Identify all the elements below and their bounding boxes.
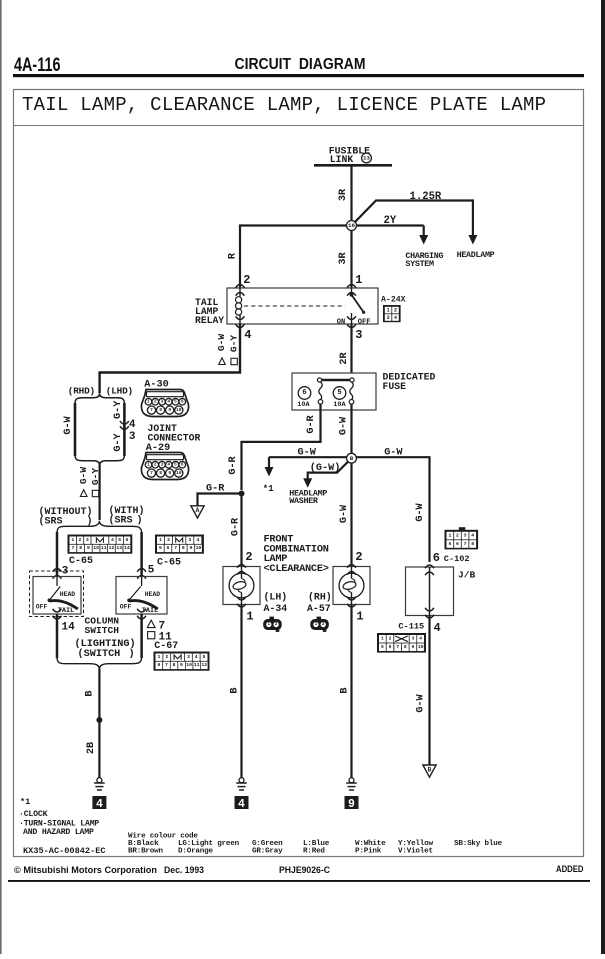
svg-text:7: 7 — [174, 545, 177, 551]
svg-text:5: 5 — [159, 545, 162, 551]
svg-text:G-W: G-W — [298, 447, 317, 458]
svg-text:5: 5 — [448, 541, 451, 547]
fuse 5 circled number — [333, 387, 346, 400]
svg-text:14: 14 — [124, 545, 130, 551]
svg-text:4: 4 — [419, 636, 422, 642]
connector A-34 icon — [263, 619, 282, 630]
svg-text:G-Y: G-Y — [229, 335, 240, 353]
joint connector A-29 icon — [141, 453, 188, 480]
svg-text:C-65: C-65 — [157, 558, 181, 569]
wire G-R from fuse 6 — [242, 404, 321, 490]
fuse 6 circled number — [298, 387, 311, 400]
svg-text:B: B — [428, 766, 432, 773]
svg-text:7: 7 — [150, 407, 153, 413]
svg-text:2: 2 — [275, 622, 278, 627]
svg-text:1: 1 — [315, 622, 318, 627]
relay coil — [239, 288, 241, 297]
svg-text:10: 10 — [176, 407, 182, 413]
svg-text:G-R: G-R — [206, 484, 225, 495]
svg-text:KX35-AC-00842-EC: KX35-AC-00842-EC — [23, 846, 106, 856]
svg-text:2: 2 — [394, 307, 397, 313]
svg-text:FUSE: FUSE — [383, 381, 407, 392]
svg-text:3: 3 — [129, 431, 136, 443]
svg-text:9: 9 — [168, 407, 171, 413]
left lighting switch box — [33, 577, 81, 615]
svg-text:5: 5 — [174, 399, 177, 404]
open triangle A destination — [191, 506, 204, 518]
left wire into C-65 (without SRS) — [56, 532, 59, 577]
wire from merge down to SRS split — [98, 465, 100, 521]
LH lamp bulb — [229, 573, 254, 598]
merge brace below RHD/LHD wires — [75, 455, 124, 466]
relay pin 1 connector chevrons — [347, 285, 356, 288]
svg-text:SYSTEM: SYSTEM — [405, 259, 434, 269]
svg-text:*1: *1 — [20, 797, 30, 807]
svg-text:2Y: 2Y — [384, 215, 397, 227]
connector A-57 icon — [310, 619, 329, 630]
svg-text:G-Y: G-Y — [113, 400, 124, 419]
wire jog to triangle A — [198, 494, 242, 507]
svg-text:3: 3 — [161, 462, 164, 467]
svg-text:6: 6 — [167, 545, 170, 551]
svg-text:RELAY: RELAY — [195, 315, 224, 326]
svg-text:6: 6 — [433, 551, 440, 565]
connector C-67 icon — [154, 652, 210, 671]
svg-text:3: 3 — [188, 537, 191, 543]
svg-text:OFF: OFF — [358, 318, 371, 326]
right switch blade — [141, 577, 143, 587]
splice dot B/2B — [96, 717, 102, 723]
svg-text:ON: ON — [337, 318, 345, 326]
svg-text:OFF: OFF — [120, 604, 132, 611]
svg-text:3R: 3R — [338, 252, 349, 265]
svg-text:1: 1 — [381, 636, 384, 642]
fusible link bus bar — [314, 164, 392, 167]
chevrons into right switch — [137, 569, 146, 572]
connector A-24X pin grid — [383, 305, 401, 322]
RH lamp box — [333, 567, 370, 605]
svg-text:2: 2 — [389, 636, 392, 642]
svg-text:6: 6 — [157, 662, 160, 668]
svg-text:(SRS: (SRS — [39, 515, 63, 527]
svg-text:2: 2 — [245, 550, 252, 564]
svg-text:): ) — [129, 648, 135, 660]
svg-text:TAIL LAMP, CLEARANCE LAMP, LIC: TAIL LAMP, CLEARANCE LAMP, LICENCE PLATE… — [22, 94, 546, 116]
joint connector inline chevrons pins 4/3 — [120, 421, 129, 424]
RH lamp output wire B — [350, 605, 352, 778]
svg-text:WASHER: WASHER — [289, 496, 319, 506]
svg-text:AND HAZARD LAMP: AND HAZARD LAMP — [23, 828, 94, 837]
svg-text:9: 9 — [87, 545, 90, 551]
svg-text:R:Red: R:Red — [303, 847, 325, 855]
junction dot on G-R — [239, 491, 245, 497]
svg-text:4: 4 — [167, 399, 170, 404]
wire 2Y from node 16 to charging system — [356, 224, 423, 226]
svg-text:G-Y: G-Y — [90, 468, 101, 486]
J/B box — [406, 567, 454, 616]
svg-text:): ) — [87, 515, 93, 527]
node 16 junction circle — [347, 221, 357, 231]
svg-text:Dec. 1993: Dec. 1993 — [164, 865, 204, 876]
svg-text:1: 1 — [159, 537, 162, 543]
svg-text:2B: 2B — [86, 742, 97, 754]
svg-text:9: 9 — [348, 798, 355, 811]
svg-text:(SRS: (SRS — [109, 514, 133, 526]
wire G-W from junction B down to RH lamp — [350, 463, 352, 566]
left switch output wire — [56, 614, 59, 658]
split brace into RHD/LHD wires — [75, 393, 124, 404]
svg-text:(LHD): (LHD) — [106, 386, 133, 397]
svg-text:C-65: C-65 — [69, 556, 93, 567]
svg-text:HEADLAMP: HEADLAMP — [457, 250, 495, 260]
svg-text:1: 1 — [246, 610, 253, 624]
wire G-R continues to LH lamp — [240, 494, 242, 567]
svg-text:3: 3 — [161, 399, 164, 404]
svg-text:6: 6 — [126, 537, 129, 543]
svg-text:8: 8 — [173, 662, 176, 668]
svg-text:7: 7 — [464, 541, 467, 547]
relay pin 4 chevrons — [236, 316, 245, 319]
svg-text:1: 1 — [147, 462, 150, 467]
relay dashed actuation line — [244, 305, 345, 307]
right wire into C-65 (with SRS) — [140, 532, 143, 577]
svg-text:8: 8 — [182, 545, 185, 551]
LH lamp output wire B — [240, 605, 242, 778]
svg-text:(RH): (RH) — [308, 592, 332, 603]
svg-text:1: 1 — [448, 532, 451, 538]
svg-text:3: 3 — [355, 328, 362, 342]
svg-text:10: 10 — [418, 644, 424, 650]
chevrons out of left switch — [53, 609, 62, 612]
wire 3R from node 16 down to relay pin 1 — [350, 231, 352, 288]
svg-text:C-102: C-102 — [444, 554, 470, 564]
svg-text:6: 6 — [302, 389, 306, 397]
connector C-115 icon — [377, 633, 426, 653]
svg-text:© Mitsubishi Motors Corporatio: © Mitsubishi Motors Corporation — [14, 865, 157, 876]
footer rule — [8, 880, 590, 882]
RH lamp exit chevrons — [347, 597, 356, 600]
svg-text:4: 4 — [111, 537, 114, 543]
svg-text:4: 4 — [238, 798, 245, 811]
wire B down from column switch — [98, 669, 100, 778]
ground symbol (column switch) — [97, 778, 102, 783]
svg-text:1: 1 — [71, 537, 74, 543]
svg-text:14: 14 — [62, 622, 76, 634]
svg-text:5: 5 — [174, 462, 177, 467]
svg-text:4: 4 — [394, 315, 397, 321]
svg-text:A: A — [196, 507, 200, 514]
svg-text:LINK: LINK — [330, 154, 354, 165]
svg-text:4: 4 — [129, 419, 136, 431]
svg-text:16: 16 — [348, 222, 355, 229]
svg-text:10: 10 — [186, 662, 192, 668]
svg-text:1: 1 — [267, 622, 270, 627]
arrow *1 (clock / turn-signal feed) — [268, 457, 270, 467]
svg-text:(G-W): (G-W) — [310, 462, 341, 474]
svg-text:*1: *1 — [263, 484, 274, 494]
chevrons out of right switch — [137, 609, 146, 612]
wire drop to relay pin 2 — [239, 224, 241, 287]
svg-text:5: 5 — [203, 654, 206, 660]
svg-text:12: 12 — [109, 545, 115, 551]
chevrons out of J/B — [425, 608, 434, 611]
svg-text:G-W: G-W — [63, 415, 74, 434]
svg-text:2: 2 — [355, 550, 362, 564]
wire 1.25R diagonal from node 16 — [355, 201, 473, 236]
ground symbol (LH lamp) — [239, 778, 244, 783]
svg-text:3R: 3R — [338, 188, 349, 201]
svg-text:11: 11 — [101, 545, 107, 551]
svg-text:2: 2 — [243, 273, 250, 287]
arrow to headlamp — [468, 235, 477, 245]
svg-text:11: 11 — [194, 662, 200, 668]
fuse bus bar — [320, 379, 353, 382]
right lighting switch box — [116, 577, 167, 615]
svg-text:B: B — [340, 687, 351, 693]
svg-text:3: 3 — [86, 537, 89, 543]
svg-text:HEAD: HEAD — [145, 591, 161, 598]
svg-text:5: 5 — [148, 565, 155, 577]
svg-text:10A: 10A — [297, 401, 310, 409]
svg-text:·CLOCK: ·CLOCK — [19, 810, 48, 819]
svg-text:G-W: G-W — [384, 447, 403, 458]
svg-text:A-57: A-57 — [307, 603, 331, 614]
svg-text:(RHD): (RHD) — [68, 386, 95, 397]
svg-text:): ) — [137, 514, 143, 526]
svg-text:3: 3 — [412, 636, 415, 642]
svg-text:5: 5 — [118, 537, 121, 543]
junction circle B — [347, 453, 357, 463]
svg-text:G-Y: G-Y — [113, 432, 124, 451]
svg-text:SWITCH: SWITCH — [85, 625, 120, 636]
svg-text:G-W: G-W — [216, 334, 227, 352]
svg-text:3: 3 — [187, 654, 190, 660]
right switch output wire — [140, 614, 143, 658]
fuse 5 element — [350, 382, 353, 400]
svg-text:9: 9 — [168, 470, 171, 476]
dashed outline around left lighting switch — [30, 571, 84, 617]
svg-text:4A-116: 4A-116 — [14, 55, 61, 76]
svg-text:(SWITCH: (SWITCH — [78, 648, 121, 660]
LHD wire G-Y upper — [123, 403, 126, 456]
wire 2R from relay pin 3 to dedicated fuse — [350, 324, 352, 373]
svg-text:10A: 10A — [333, 401, 346, 409]
wire G-W left to clock feed — [269, 456, 347, 458]
svg-text:1: 1 — [158, 654, 161, 660]
header rule — [13, 74, 584, 77]
relay pin 2 connector chevrons — [236, 285, 245, 288]
chevrons into J/B — [425, 565, 434, 568]
chevrons into left switch — [53, 569, 62, 572]
svg-text:ADDED: ADDED — [556, 864, 584, 875]
svg-text:G-W: G-W — [78, 467, 89, 485]
svg-text:4: 4 — [244, 328, 251, 342]
svg-text:4: 4 — [434, 621, 441, 635]
svg-text:1: 1 — [355, 273, 362, 287]
main diagram border box — [14, 90, 584, 857]
svg-text:9: 9 — [412, 644, 415, 650]
svg-text:2: 2 — [165, 654, 168, 660]
svg-text:B: B — [85, 690, 96, 696]
relay pin 3 chevrons — [347, 316, 356, 319]
ground number 4 — [92, 796, 106, 809]
svg-text:8: 8 — [79, 545, 82, 551]
svg-text:4: 4 — [471, 532, 474, 538]
wire G-W from J/B down to triangle B — [428, 616, 430, 766]
svg-text:12: 12 — [201, 662, 207, 668]
svg-text:1: 1 — [147, 399, 150, 404]
svg-text:9: 9 — [189, 545, 192, 551]
svg-text:13: 13 — [363, 155, 370, 162]
page left edge line — [0, 0, 2, 954]
svg-text:2: 2 — [167, 537, 170, 543]
svg-text:7: 7 — [396, 644, 399, 650]
connector C-102 icon — [459, 527, 466, 530]
svg-text:CIRCUIT DIAGRAM: CIRCUIT DIAGRAM — [235, 56, 366, 73]
tail lamp relay box — [227, 288, 378, 324]
wire from node 16 left to relay pin 2 drop — [240, 224, 347, 226]
svg-text:2: 2 — [456, 532, 459, 538]
svg-text:2: 2 — [154, 399, 157, 404]
svg-text:OFF: OFF — [36, 604, 48, 611]
page right edge black strip — [601, 0, 605, 954]
relay switch contact — [351, 288, 353, 294]
svg-text:V:Violet: V:Violet — [398, 847, 433, 855]
LH lamp box — [223, 567, 260, 605]
svg-text:G-W: G-W — [338, 416, 349, 435]
svg-text:2R: 2R — [339, 352, 350, 365]
svg-text:7: 7 — [165, 662, 168, 668]
svg-text:8: 8 — [471, 541, 474, 547]
svg-text:G-W: G-W — [339, 504, 350, 523]
svg-text:PHJE9026-C: PHJE9026-C — [279, 865, 330, 876]
connector C-65 (with SRS) icon — [155, 535, 204, 554]
svg-text:4: 4 — [196, 537, 199, 543]
wire 3R from fusible link down to node 16 — [350, 165, 352, 221]
svg-text:3: 3 — [464, 532, 467, 538]
svg-text:SB:Sky blue: SB:Sky blue — [454, 840, 503, 848]
svg-text:6: 6 — [389, 644, 392, 650]
svg-text:7: 7 — [72, 545, 75, 551]
ground symbol (RH lamp) — [349, 778, 354, 783]
fuse 6 element — [319, 382, 322, 400]
svg-text:3: 3 — [387, 315, 390, 321]
svg-text:<CLEARANCE>: <CLEARANCE> — [264, 563, 329, 575]
svg-text:6: 6 — [456, 541, 459, 547]
svg-text:5: 5 — [337, 389, 341, 397]
svg-text:13: 13 — [116, 545, 122, 551]
svg-text:R: R — [227, 252, 238, 259]
svg-text:GR:Gray: GR:Gray — [252, 847, 283, 855]
left switch blade — [56, 577, 58, 587]
pin 7 triangle label — [147, 620, 155, 627]
svg-text:2: 2 — [79, 537, 82, 543]
RH lamp bulb — [339, 573, 364, 598]
svg-text:9: 9 — [180, 662, 183, 668]
open triangle B destination — [423, 765, 436, 777]
arrow to charging system — [419, 235, 428, 245]
svg-text:10: 10 — [196, 545, 202, 551]
svg-text:4: 4 — [96, 798, 103, 811]
svg-text:HEAD: HEAD — [60, 591, 76, 598]
svg-text:10: 10 — [176, 470, 182, 476]
svg-text:G-R: G-R — [231, 517, 242, 536]
svg-text:2: 2 — [322, 622, 325, 627]
svg-text:J/B: J/B — [458, 570, 476, 581]
pin 11 square label — [148, 632, 155, 639]
svg-text:8: 8 — [159, 407, 162, 413]
svg-text:6: 6 — [181, 399, 184, 404]
svg-text:B: B — [230, 687, 241, 693]
svg-text:P:Pink: P:Pink — [355, 847, 382, 855]
svg-text:G-R: G-R — [228, 455, 239, 474]
title separator line — [14, 125, 584, 127]
LH lamp entry chevrons — [237, 565, 246, 568]
svg-text:D:Orange: D:Orange — [178, 847, 213, 855]
wire through J/B — [429, 567, 431, 616]
svg-text:2: 2 — [154, 462, 157, 467]
connector C-65 (without SRS) icon — [68, 535, 133, 554]
wire from relay pin 4 down-left to RHD/LHD split — [100, 324, 240, 393]
svg-text:4: 4 — [167, 462, 170, 467]
svg-text:B: B — [350, 455, 354, 462]
svg-text:G-R: G-R — [306, 414, 317, 433]
svg-text:5: 5 — [381, 644, 384, 650]
dedicated fuse box — [292, 373, 376, 410]
svg-text:4: 4 — [195, 654, 198, 660]
svg-text:G-W: G-W — [415, 502, 426, 521]
RH lamp entry chevrons — [347, 565, 356, 568]
svg-text:BR:Brown: BR:Brown — [128, 847, 163, 855]
split brace to column switch halves — [57, 521, 142, 533]
circled 13 (fusible link number) — [362, 153, 372, 163]
svg-text:G-W: G-W — [416, 693, 427, 712]
svg-text:A-24X: A-24X — [381, 296, 406, 305]
svg-text:C-67: C-67 — [154, 641, 178, 652]
svg-text:1.25R: 1.25R — [410, 191, 442, 203]
svg-text:(LH): (LH) — [264, 592, 288, 603]
RHD wire G-W — [74, 403, 77, 456]
svg-text:1: 1 — [387, 307, 390, 313]
svg-text:A-34: A-34 — [264, 603, 288, 614]
svg-text:6: 6 — [181, 462, 184, 467]
svg-text:7: 7 — [150, 470, 153, 476]
wire G-W from fuse 5 to junction B — [350, 404, 352, 454]
svg-text:8: 8 — [159, 470, 162, 476]
LH lamp exit chevrons — [237, 597, 246, 600]
svg-text:8: 8 — [404, 644, 407, 650]
svg-text:C-115: C-115 — [398, 622, 424, 632]
wire (G-W) to headlamp washer — [308, 462, 349, 480]
joint connector A-30 icon — [141, 390, 188, 417]
merge brace of switch outputs — [57, 657, 142, 669]
svg-text:10: 10 — [93, 545, 99, 551]
svg-text:1: 1 — [356, 610, 363, 624]
